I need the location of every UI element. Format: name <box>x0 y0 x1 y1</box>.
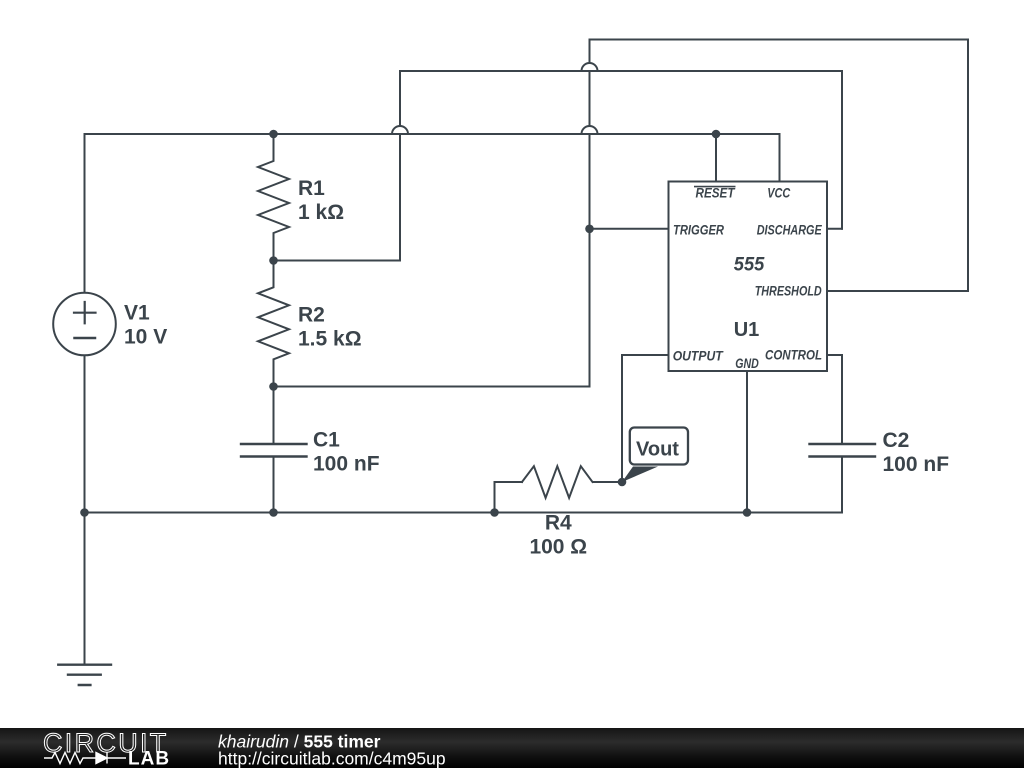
capacitor C2 plates <box>810 444 876 457</box>
node GND rail junction <box>743 508 752 517</box>
wire right vertical x=968 <box>967 40 969 292</box>
ground symbol <box>58 665 111 685</box>
hop x400 over y=134 <box>392 126 408 134</box>
svg-text:http://circuitlab.com/c4m95up: http://circuitlab.com/c4m95up <box>218 748 446 768</box>
svg-text:DISCHARGE: DISCHARGE <box>757 223 823 238</box>
svg-text:1.5 kΩ: 1.5 kΩ <box>298 327 362 350</box>
Vout flag pointer <box>622 467 658 483</box>
svg-text:THRESHOLD: THRESHOLD <box>755 284 822 299</box>
resistor R1 zigzag <box>258 134 289 261</box>
svg-text:CONTROL: CONTROL <box>765 347 822 362</box>
svg-text:100 nF: 100 nF <box>313 452 380 475</box>
wire V1 top vertical <box>84 134 86 294</box>
svg-text:C1: C1 <box>313 428 340 451</box>
logo resistor-diode glyph <box>44 753 126 764</box>
wire RESET pin vertical <box>715 134 717 182</box>
wire DISCHARGE pin stub <box>827 228 842 230</box>
hop over y=71 wire <box>582 63 598 71</box>
svg-text:U1: U1 <box>734 319 760 341</box>
wire R1R2 junction to x=400 <box>274 260 401 262</box>
svg-text:RESET: RESET <box>696 186 737 201</box>
wire GND pin vertical <box>746 371 748 513</box>
wire CONTROL pin <box>827 354 842 356</box>
wire to ground symbol <box>84 513 86 665</box>
svg-text:LAB: LAB <box>128 749 170 768</box>
node V1 rail junction <box>80 508 89 517</box>
wire R4 left branch <box>495 482 523 513</box>
svg-text:100 nF: 100 nF <box>883 453 950 476</box>
RESET overline <box>695 186 735 188</box>
svg-text:OUTPUT: OUTPUT <box>673 348 725 363</box>
wire discharge rail y=71 <box>400 70 842 72</box>
capacitor C1 leads <box>273 387 275 513</box>
node RESET junction <box>712 130 721 139</box>
resistor R4 zigzag <box>522 466 593 498</box>
wire x=400 vertical lower <box>399 134 401 261</box>
svg-text:1 kΩ: 1 kΩ <box>298 201 344 224</box>
node dots <box>80 130 751 517</box>
op-amp U1 555 box <box>669 182 828 372</box>
wire control to C2 top <box>841 355 843 444</box>
wire main supply rail y=134 <box>85 133 780 135</box>
voltage source V1 circle <box>53 293 116 356</box>
node trigger junction <box>585 225 594 234</box>
wire output vertical x=622 <box>621 355 623 482</box>
capacitor C1 plates <box>241 444 307 457</box>
wire V1 bottom vertical <box>84 355 86 513</box>
wire ground rail y=512.5 <box>85 512 843 514</box>
wire trigger vertical lower <box>589 134 591 387</box>
svg-text:VCC: VCC <box>767 186 790 201</box>
wire x=400 vertical upper <box>399 71 401 126</box>
wire top rail y=39.5 (threshold loop) <box>590 39 969 41</box>
footer title text <box>218 732 446 768</box>
wire trigger vertical middle <box>589 71 591 126</box>
node R1/R2 junction <box>269 256 278 265</box>
hop over y=134 wire <box>582 126 598 134</box>
Vout flag box <box>630 428 688 465</box>
svg-text:Vout: Vout <box>636 439 679 461</box>
wire TRIGGER pin <box>590 228 669 230</box>
node R4 rail junction <box>490 508 499 517</box>
V1 minus sign <box>75 337 96 340</box>
node R1 top junction <box>269 130 278 139</box>
svg-text:R1: R1 <box>298 177 325 200</box>
wire OUTPUT pin <box>622 354 669 356</box>
svg-text:R4: R4 <box>545 512 572 535</box>
wire R2 bottom to trigger <box>274 386 590 388</box>
svg-text:TRIGGER: TRIGGER <box>673 223 724 238</box>
svg-text:V1: V1 <box>124 301 150 324</box>
wire VCC pin vertical <box>779 134 781 182</box>
svg-text:555: 555 <box>734 255 765 276</box>
svg-text:10 V: 10 V <box>124 325 167 348</box>
wire trigger vertical x=589.5 with hops <box>589 40 591 64</box>
wire C2 bottom lead <box>841 457 843 513</box>
node Vout junction <box>618 478 627 487</box>
node C1 rail junction <box>269 508 278 517</box>
wire discharge vertical x=842 <box>841 71 843 229</box>
wire R4 right lead <box>593 481 622 483</box>
svg-text:C2: C2 <box>883 429 910 452</box>
wire THRESHOLD pin <box>827 290 968 292</box>
svg-text:GND: GND <box>735 356 759 371</box>
resistor R2 zigzag <box>258 261 289 387</box>
V1 plus sign <box>74 302 96 323</box>
svg-text:R2: R2 <box>298 303 325 326</box>
node R2/C1 junction <box>269 382 278 391</box>
svg-text:100 Ω: 100 Ω <box>529 536 587 559</box>
